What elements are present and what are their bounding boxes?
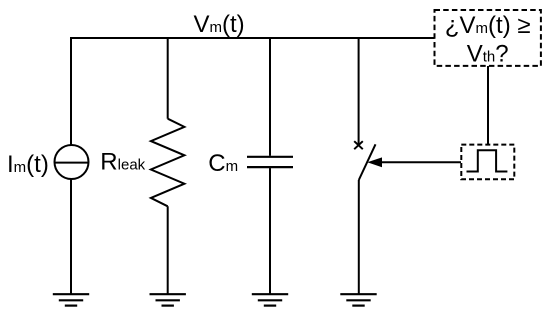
wire: switch bottom lead bbox=[358, 180, 360, 294]
wire: capacitor top lead bbox=[269, 37, 271, 156]
switch control arrowhead bbox=[367, 157, 382, 167]
ground (switch branch) bbox=[340, 294, 376, 305]
svg-text:Vm(t): Vm(t) bbox=[194, 11, 245, 38]
wire: current source top lead bbox=[70, 37, 72, 146]
svg-text:Rleak: Rleak bbox=[100, 149, 145, 176]
switch contact x-mark bbox=[354, 141, 363, 149]
svg-text:Vth?: Vth? bbox=[467, 41, 509, 68]
wire: capacitor bottom lead bbox=[269, 168, 271, 294]
svg-text:¿Vm(t) ≥: ¿Vm(t) ≥ bbox=[445, 12, 531, 39]
ground (current source branch) bbox=[53, 294, 89, 305]
wire: top rail node Vm bbox=[70, 37, 435, 39]
wire: switch control line bbox=[381, 161, 461, 163]
wire: resistor bottom lead bbox=[167, 206, 169, 294]
pulse waveform symbol bbox=[467, 150, 508, 171]
wire: switch top lead bbox=[358, 37, 360, 145]
wire: current source bottom lead bbox=[70, 179, 72, 294]
current source Im(t) bbox=[55, 145, 89, 179]
ground (capacitor branch) bbox=[252, 294, 288, 305]
capacitor Cm bbox=[247, 157, 293, 167]
pulse generator dashed box bbox=[461, 145, 514, 180]
comparator block dashed box bbox=[435, 10, 541, 66]
svg-text:Im(t): Im(t) bbox=[7, 151, 49, 178]
svg-text:Cm: Cm bbox=[208, 150, 238, 177]
wire: comparator to pulse generator bbox=[487, 66, 489, 145]
ground (resistor branch) bbox=[150, 294, 186, 305]
wire: resistor top lead bbox=[167, 37, 169, 119]
switch blade bbox=[359, 144, 376, 180]
resistor Rleak bbox=[151, 119, 185, 207]
